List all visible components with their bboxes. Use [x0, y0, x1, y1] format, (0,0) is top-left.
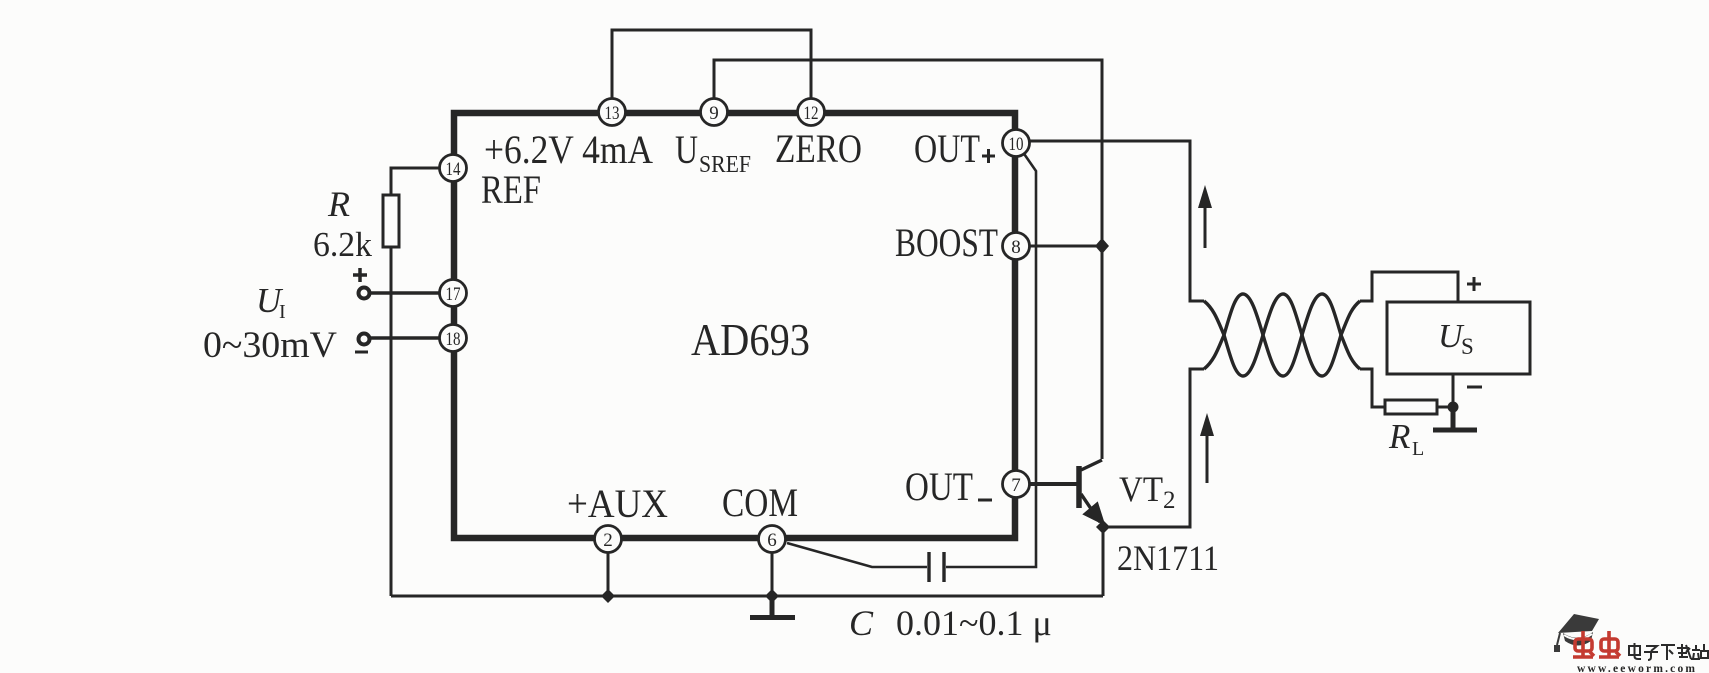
wire pin7 OUT- to VT2 base	[1016, 482, 1077, 486]
wire emitter to twisted pair bottom	[1103, 369, 1204, 527]
current arrow bottom head	[1200, 413, 1214, 436]
current arrow top shaft	[1204, 203, 1207, 248]
svg-text:6.2k: 6.2k	[313, 225, 372, 264]
terminal + input	[359, 288, 370, 299]
junction BOOST node	[1095, 238, 1109, 254]
twisted pair wire A	[1204, 294, 1360, 376]
wire pin10 OUT+ to twisted pair top	[1016, 141, 1204, 301]
junction US - node dot	[1448, 402, 1459, 413]
svg-text:2N1711: 2N1711	[1117, 538, 1219, 578]
svg-text:+AUX: +AUX	[567, 481, 668, 526]
junction emitter node	[1096, 520, 1110, 534]
transistor VT2 emitter arrow	[1085, 504, 1103, 523]
svg-text:8: 8	[1011, 237, 1021, 258]
svg-text:9: 9	[709, 103, 719, 124]
pin 12	[798, 99, 825, 126]
wire pin9 USREF to collector net	[714, 60, 1102, 459]
svg-text:OUT: OUT	[905, 464, 973, 509]
wire RL to US - node	[1437, 406, 1453, 409]
svg-text:7: 7	[1011, 475, 1021, 496]
svg-text:BOOST: BOOST	[895, 220, 998, 265]
wire terminal+ to pin17	[364, 291, 453, 295]
sign - at US	[1467, 386, 1482, 389]
resistor R body	[383, 195, 399, 247]
wire US - node to US box	[1452, 374, 1455, 407]
watermark chongchong char2	[1599, 631, 1620, 658]
wire resistor R to COM rail	[390, 247, 393, 596]
svg-text:18: 18	[446, 329, 461, 350]
svg-text:2: 2	[1163, 487, 1176, 514]
svg-text:10: 10	[1009, 134, 1024, 155]
pin 13	[599, 99, 626, 126]
svg-text:14: 14	[446, 159, 461, 180]
transistor VT2 base bar	[1076, 466, 1082, 508]
svg-text:SREF: SREF	[699, 152, 751, 178]
pin 18	[440, 325, 467, 352]
watermark char zhan	[1691, 644, 1708, 659]
current arrow bottom shaft	[1206, 432, 1209, 483]
watermark cap board	[1558, 614, 1599, 633]
svg-text:U: U	[675, 127, 698, 172]
pin 7	[1003, 471, 1030, 498]
svg-text:13: 13	[605, 103, 620, 124]
pin 8	[1003, 233, 1030, 260]
svg-text:ZERO: ZERO	[775, 126, 862, 171]
svg-text:OUT: OUT	[914, 126, 980, 171]
watermark char zai	[1677, 644, 1691, 659]
watermark cap base	[1563, 632, 1593, 646]
svg-text:17: 17	[446, 284, 461, 305]
pin 6	[759, 526, 786, 553]
pin 2	[595, 526, 622, 553]
svg-text:2: 2	[603, 530, 613, 551]
junction rail at pin6	[765, 589, 779, 603]
watermark chongchong char1	[1573, 631, 1594, 658]
svg-text:www.eeworm.com: www.eeworm.com	[1577, 663, 1697, 673]
wire twisted pair bottom to RL	[1360, 369, 1385, 407]
watermark char dian	[1629, 643, 1641, 659]
svg-text:S: S	[1461, 334, 1474, 359]
IC U1 AD693 body	[454, 113, 1015, 538]
watermark char zi	[1644, 646, 1658, 660]
wire pin8 BOOST to collector net	[1016, 245, 1102, 248]
sign - at input terminal	[355, 351, 368, 354]
resistor RL body	[1385, 400, 1437, 414]
ground under COM rail	[750, 596, 795, 618]
wire pin2 AUX stub	[607, 539, 610, 596]
svg-text:C: C	[849, 603, 874, 643]
watermark cap white arc	[1564, 634, 1592, 639]
wire pin13 to pin12 jumper	[612, 30, 811, 112]
svg-text:12: 12	[804, 103, 819, 124]
pin 9	[701, 99, 728, 126]
wire pin6 COM stub	[771, 539, 774, 596]
svg-text:COM: COM	[722, 480, 798, 525]
sign + at input terminal	[353, 268, 367, 282]
svg-text:R: R	[1388, 417, 1410, 456]
transistor VT2 collector	[1081, 460, 1102, 470]
watermark cap tassel	[1557, 633, 1560, 645]
svg-text:AD693: AD693	[691, 314, 810, 365]
svg-text:0.01~0.1 μ: 0.01~0.1 μ	[896, 603, 1052, 643]
svg-text:REF: REF	[481, 167, 541, 212]
svg-text:I: I	[279, 301, 286, 323]
COM bottom rail	[391, 595, 1103, 598]
twisted pair wire B	[1204, 294, 1360, 376]
label OUT+ plus sign	[982, 149, 995, 163]
junction rail at pin2	[601, 589, 615, 603]
ground at US - node	[1433, 407, 1477, 430]
terminal - input	[359, 334, 370, 345]
battery US box	[1387, 302, 1530, 374]
svg-text:+6.2V 4mA: +6.2V 4mA	[484, 127, 653, 172]
pin 10	[1003, 130, 1030, 157]
wire pin10 OUT+ to capacitor C	[946, 148, 1036, 567]
sign + at US	[1467, 277, 1481, 291]
pin 17	[440, 280, 467, 307]
capacitor C plates	[929, 552, 944, 582]
svg-text:L: L	[1412, 438, 1424, 460]
label OUT- minus sign	[978, 499, 992, 502]
current arrow top head	[1198, 185, 1212, 208]
wire capacitor C to pin6 COM	[787, 543, 927, 567]
wire terminal- to pin18	[364, 336, 453, 340]
watermark char xia	[1661, 645, 1675, 660]
transistor VT2 emitter	[1081, 494, 1100, 522]
svg-text:0~30mV: 0~30mV	[203, 325, 337, 366]
svg-text:6: 6	[767, 530, 777, 551]
wire pin14 REF to resistor R	[391, 168, 453, 195]
wire twisted pair top to US + terminal	[1360, 272, 1458, 302]
wire emitter to COM rail	[1102, 527, 1105, 596]
svg-text:VT: VT	[1119, 469, 1163, 509]
pin 14	[440, 155, 467, 182]
svg-text:R: R	[327, 184, 350, 224]
